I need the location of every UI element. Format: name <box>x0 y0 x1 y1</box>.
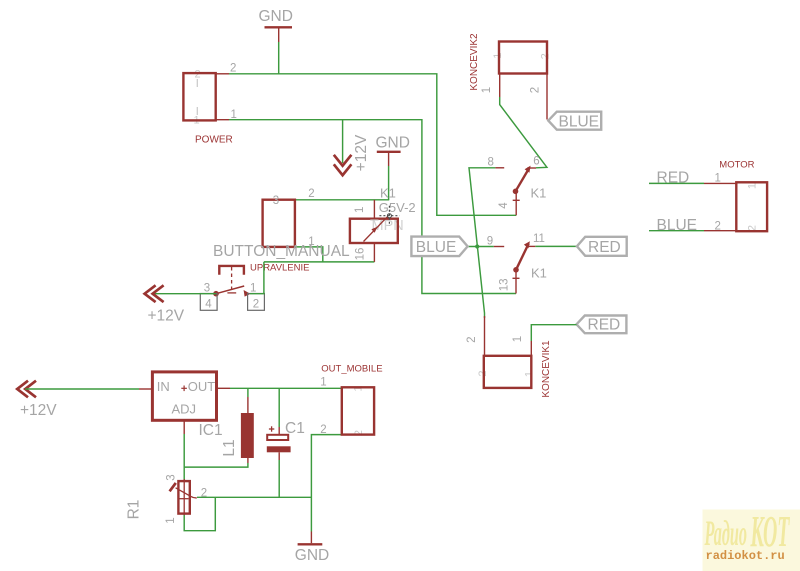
svg-text:9: 9 <box>487 236 493 248</box>
svg-text:2: 2 <box>201 488 207 500</box>
svg-text:+12V: +12V <box>20 402 57 419</box>
svg-text:BLUE: BLUE <box>657 217 698 234</box>
watermark radiokot logo <box>703 509 800 571</box>
wire IC1 OUT bus to OUT_MOBILE pin1 <box>230 387 342 389</box>
svg-text:3: 3 <box>204 283 210 295</box>
wire net: switch to coil pin16 <box>264 261 375 263</box>
svg-text:KONCEVIK1: KONCEVIK1 <box>541 340 552 398</box>
wire pin11 to RED flag <box>535 245 577 247</box>
svg-text:GND: GND <box>259 8 293 25</box>
svg-text:1: 1 <box>746 183 758 189</box>
wire pin9 to BLUE flag <box>468 246 494 248</box>
connector KONCEVIK2 <box>469 33 551 120</box>
svg-text:1: 1 <box>165 517 177 523</box>
svg-text:1: 1 <box>715 173 721 185</box>
wire IC1 ADJ down <box>183 434 185 481</box>
svg-text:1: 1 <box>523 371 535 377</box>
svg-text:2: 2 <box>194 69 200 81</box>
svg-text:2: 2 <box>320 424 326 436</box>
svg-text:4: 4 <box>205 298 212 310</box>
wire GND net: GND1 down to top bus <box>278 42 280 74</box>
wire R1 wiper row to GND column <box>197 496 311 498</box>
regulator IC1 <box>139 372 230 439</box>
supply +12V arrow A3 (pointing left) <box>17 381 57 419</box>
svg-text:RED: RED <box>657 170 690 187</box>
svg-text:2: 2 <box>466 336 478 342</box>
svg-text:UPRAVLENIE: UPRAVLENIE <box>250 263 309 274</box>
svg-text:2: 2 <box>308 188 314 200</box>
svg-text:ADJ: ADJ <box>172 401 197 416</box>
svg-text:KONCEVIK2: KONCEVIK2 <box>469 33 480 91</box>
svg-text:radiokot.ru: radiokot.ru <box>706 549 785 563</box>
connector KONCEVIK1 <box>466 316 552 398</box>
svg-text:GND: GND <box>376 134 410 151</box>
svg-text:POWER: POWER <box>195 134 233 145</box>
svg-text:2: 2 <box>539 53 551 59</box>
wire R1 loop pin2 to pin1 <box>184 497 215 530</box>
selection cursor cross <box>379 206 399 226</box>
svg-text:+12V: +12V <box>353 134 370 171</box>
svg-text:16: 16 <box>355 248 367 261</box>
supply +12V arrow A2 (pointing left) <box>145 285 185 324</box>
ground GND3 <box>295 532 329 565</box>
potentiometer R1 <box>126 474 208 523</box>
svg-text:1: 1 <box>231 109 237 121</box>
svg-text:IN: IN <box>157 379 170 394</box>
connector OUT_MOBILE <box>320 364 382 437</box>
svg-text:BLUE: BLUE <box>559 114 600 131</box>
junction BLUE net at pin9 row <box>475 244 479 248</box>
ground GND1 <box>259 8 293 42</box>
svg-text:13: 13 <box>498 278 510 291</box>
capacitor C1 <box>267 420 305 460</box>
svg-text:G5V-2: G5V-2 <box>379 200 416 215</box>
svg-text:BLUE: BLUE <box>416 239 457 256</box>
wire +12V arrow to switch pin3 <box>153 293 216 295</box>
wire GND2 to coil net <box>388 166 390 200</box>
wire KONCEVIK1 pin1 to RED flag <box>531 325 576 341</box>
svg-text:1: 1 <box>481 87 493 93</box>
svg-text:R1: R1 <box>126 500 143 520</box>
wire POWER pin1 +12V net to right column <box>229 120 516 294</box>
wire +12V to IC1 IN <box>25 388 139 390</box>
pushbutton BUTTON_MANUAL <box>213 188 350 260</box>
svg-text:2: 2 <box>230 63 236 75</box>
svg-text:1: 1 <box>512 336 524 342</box>
svg-text:RED: RED <box>588 317 621 334</box>
svg-text:11: 11 <box>533 233 545 245</box>
wire net: KONCEVIK2 pin1 slant to contact pin6 <box>500 97 547 168</box>
inductor L1 <box>221 397 254 463</box>
wire L1 top drop <box>247 388 249 397</box>
connector MOTOR <box>704 160 767 233</box>
net flag RED (lower) <box>577 316 627 334</box>
wire net 2: button pin3 row to coil pin1 and GND2 <box>295 199 389 201</box>
svg-text:8: 8 <box>488 156 494 168</box>
svg-text:OUT_MOBILE: OUT_MOBILE <box>321 364 382 375</box>
wire L1 bottom to ADJ junction <box>184 463 248 467</box>
svg-text:L1: L1 <box>221 439 238 456</box>
svg-text:2: 2 <box>715 221 721 233</box>
relay contact K1-A (pins 8,6,4) <box>488 156 547 216</box>
net flag RED (upper) <box>577 237 627 256</box>
svg-text:1: 1 <box>320 377 326 389</box>
wire MOTOR pin2 BLUE net <box>649 230 704 232</box>
svg-text:3: 3 <box>273 195 279 207</box>
ground GND2 <box>376 134 410 166</box>
wire C1 bottom to GND row <box>278 460 280 497</box>
svg-text:K1: K1 <box>531 266 547 281</box>
svg-text:K1: K1 <box>531 186 547 201</box>
wire +12V drop to supply arrow <box>342 120 344 163</box>
svg-text:C1: C1 <box>285 420 305 437</box>
net flag BLUE (middle) <box>411 237 467 257</box>
svg-text:OUT: OUT <box>188 379 216 394</box>
relay contact K1-B (pins 9,11,13) <box>487 233 547 294</box>
wire top bus y=74 from POWER pin2 to right corner <box>229 74 516 216</box>
svg-text:IC1: IC1 <box>199 422 223 439</box>
wire switch pin1 to right edge of pad <box>250 262 264 294</box>
svg-text:GND: GND <box>295 547 329 564</box>
supply +12V arrow A1 (pointing down) <box>334 134 370 175</box>
svg-text:MOTOR: MOTOR <box>719 160 754 171</box>
wire MOTOR pin1 RED net <box>649 182 704 184</box>
wire BLUE net slanted: pin8 corner down to KONCEVIK1 pin2 <box>469 168 495 318</box>
connector POWER <box>183 63 237 146</box>
svg-text:+12V: +12V <box>148 307 185 324</box>
wire net 1: button pin1 down to switch row <box>295 247 323 262</box>
svg-text:2: 2 <box>253 298 259 310</box>
svg-text:1: 1 <box>250 283 256 295</box>
svg-text:4: 4 <box>498 202 510 209</box>
wire OUT_MOBILE pin2 to GND <box>311 435 341 532</box>
svg-text:BUTTON_MANUAL: BUTTON_MANUAL <box>213 243 350 260</box>
svg-text:6: 6 <box>533 156 539 168</box>
relay coil K1 G5V-2 <box>350 186 416 262</box>
svg-text:K1: K1 <box>380 186 396 201</box>
net flag BLUE (top) <box>548 112 601 131</box>
svg-text:1: 1 <box>354 207 366 213</box>
svg-text:RED: RED <box>588 239 621 256</box>
svg-text:3: 3 <box>166 474 178 480</box>
svg-text:2: 2 <box>530 87 542 93</box>
switch S1 UPRAVLENIE <box>200 263 309 311</box>
wire C1 top drop <box>278 388 280 427</box>
